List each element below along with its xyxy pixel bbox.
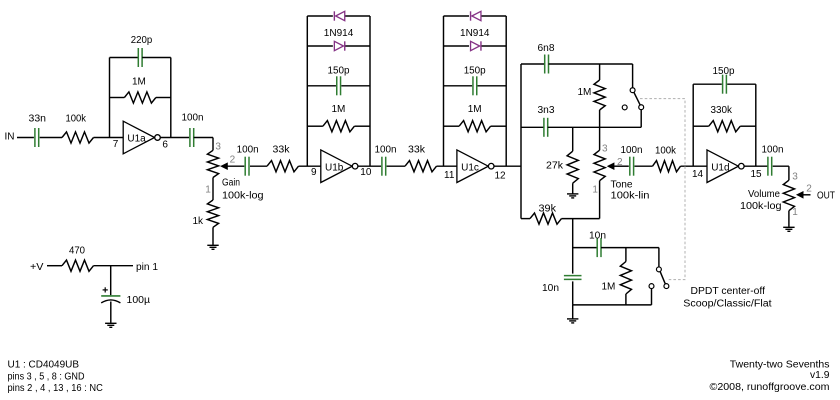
svg-text:100k-log: 100k-log — [740, 201, 782, 212]
svg-text:DPDT center-off: DPDT center-off — [691, 286, 766, 297]
svg-text:pin 1: pin 1 — [136, 262, 158, 273]
svg-text:Twenty-two Sevenths: Twenty-two Sevenths — [730, 359, 830, 370]
svg-text:14: 14 — [692, 169, 704, 180]
svg-text:1k: 1k — [193, 216, 205, 227]
svg-text:150p: 150p — [464, 66, 486, 77]
svg-text:100k: 100k — [655, 146, 677, 157]
svg-text:3: 3 — [602, 144, 608, 155]
svg-text:470: 470 — [69, 245, 85, 256]
svg-text:330k: 330k — [711, 105, 733, 116]
svg-text:33k: 33k — [273, 144, 291, 155]
svg-text:150p: 150p — [328, 66, 350, 77]
svg-text:pins 3 , 5 , 8 : GND: pins 3 , 5 , 8 : GND — [8, 371, 85, 382]
svg-text:1N914: 1N914 — [460, 28, 490, 39]
svg-text:100k: 100k — [66, 113, 87, 124]
svg-text:1M: 1M — [602, 281, 616, 292]
svg-text:pins 2 , 4 , 13 , 16 : NC: pins 2 , 4 , 13 , 16 : NC — [8, 383, 103, 394]
svg-text:6: 6 — [162, 140, 168, 151]
svg-text:100k-log: 100k-log — [222, 191, 264, 202]
svg-text:Tone: Tone — [611, 179, 633, 190]
svg-text:33n: 33n — [29, 113, 47, 124]
svg-text:2: 2 — [806, 183, 812, 194]
svg-text:©2008, runoffgroove.com: ©2008, runoffgroove.com — [710, 382, 830, 393]
svg-text:15: 15 — [751, 169, 763, 180]
svg-text:Scoop/Classic/Flat: Scoop/Classic/Flat — [683, 298, 772, 309]
svg-text:1: 1 — [205, 184, 211, 195]
svg-text:10n: 10n — [542, 283, 559, 294]
svg-text:100n: 100n — [182, 113, 204, 124]
svg-text:U1c: U1c — [461, 162, 479, 173]
svg-text:3n3: 3n3 — [538, 105, 555, 116]
svg-text:2: 2 — [230, 155, 236, 166]
svg-text:1M: 1M — [468, 104, 482, 115]
svg-text:150p: 150p — [713, 66, 735, 77]
svg-text:100n: 100n — [621, 145, 643, 156]
svg-text:1: 1 — [592, 185, 598, 196]
svg-text:1: 1 — [792, 207, 798, 218]
svg-text:10n: 10n — [589, 231, 606, 242]
svg-text:33k: 33k — [408, 144, 426, 155]
svg-text:27k: 27k — [546, 160, 564, 171]
svg-text:U1 : CD4049UB: U1 : CD4049UB — [8, 360, 80, 371]
svg-text:100k-lin: 100k-lin — [611, 190, 650, 201]
svg-text:1M: 1M — [332, 104, 346, 115]
svg-text:12: 12 — [495, 171, 507, 182]
svg-text:100n: 100n — [375, 144, 397, 155]
svg-text:39k: 39k — [539, 204, 558, 215]
svg-text:100n: 100n — [762, 145, 784, 156]
svg-text:Volume: Volume — [748, 189, 780, 200]
svg-text:Gain: Gain — [222, 177, 240, 188]
svg-text:U1b: U1b — [325, 162, 344, 173]
svg-text:U1d: U1d — [711, 162, 729, 173]
svg-text:+V: +V — [30, 262, 44, 273]
svg-text:IN: IN — [5, 132, 15, 143]
svg-text:1N914: 1N914 — [324, 28, 354, 39]
svg-text:3: 3 — [792, 171, 798, 182]
svg-text:100n: 100n — [237, 144, 259, 155]
svg-text:3: 3 — [215, 141, 221, 152]
svg-text:1M: 1M — [132, 77, 146, 88]
svg-text:v1.9: v1.9 — [810, 370, 830, 381]
svg-text:9: 9 — [311, 167, 317, 178]
svg-text:11: 11 — [444, 170, 455, 181]
svg-text:OUT: OUT — [817, 190, 835, 201]
svg-text:U1a: U1a — [127, 134, 146, 145]
svg-text:10: 10 — [360, 167, 372, 178]
svg-text:1M: 1M — [578, 87, 592, 98]
svg-text:6n8: 6n8 — [538, 43, 555, 54]
svg-text:7: 7 — [113, 139, 119, 150]
svg-text:100µ: 100µ — [127, 295, 151, 306]
svg-text:220p: 220p — [131, 35, 153, 46]
